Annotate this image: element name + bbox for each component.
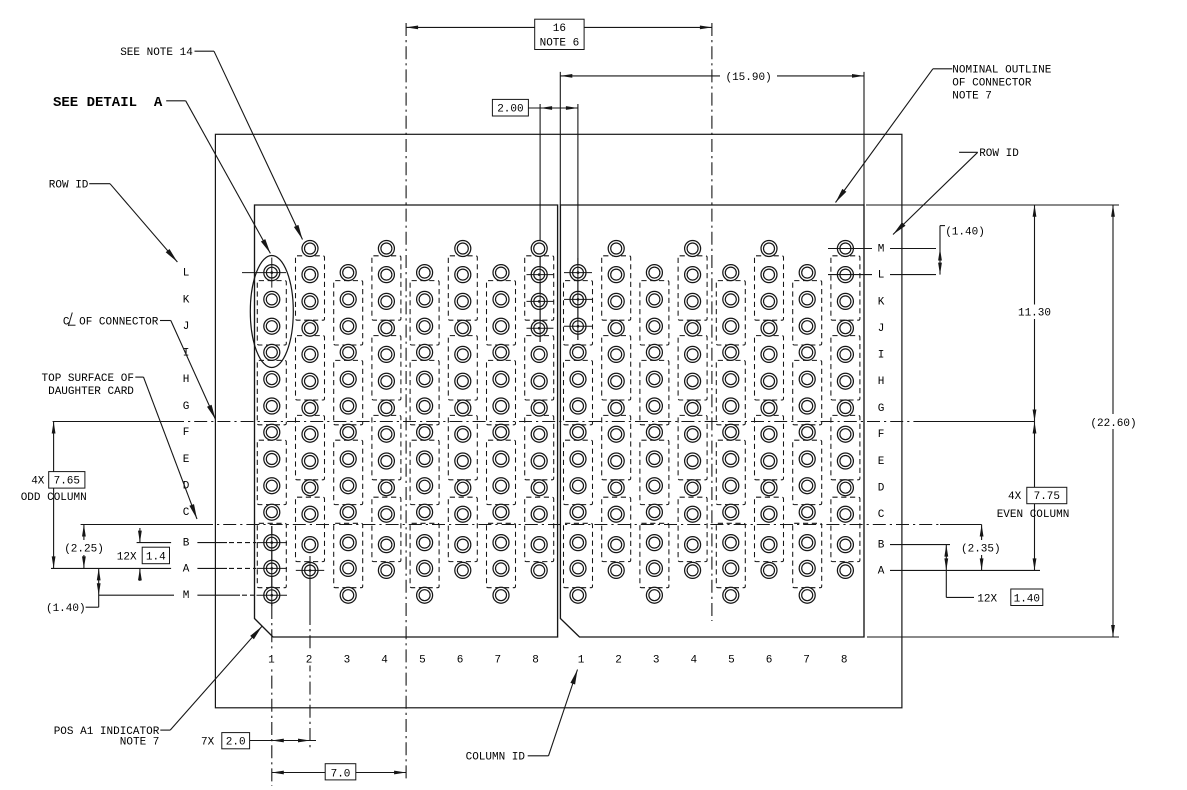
svg-text:ROW ID: ROW ID <box>49 180 89 192</box>
svg-text:OF CONNECTOR: OF CONNECTOR <box>952 78 1032 90</box>
svg-text:12X: 12X <box>117 551 137 563</box>
svg-text:(1.40): (1.40) <box>46 603 86 615</box>
svg-text:OF CONNECTOR: OF CONNECTOR <box>79 316 159 328</box>
svg-text:COLUMN ID: COLUMN ID <box>466 752 526 764</box>
svg-text:C: C <box>183 507 190 519</box>
svg-text:C: C <box>878 509 885 521</box>
svg-text:B: B <box>878 540 885 552</box>
svg-text:B: B <box>183 538 190 550</box>
svg-text:A: A <box>183 563 190 575</box>
svg-text:5: 5 <box>728 654 735 666</box>
svg-text:12X: 12X <box>977 593 997 605</box>
svg-text:4: 4 <box>381 654 388 666</box>
svg-text:6: 6 <box>457 654 464 666</box>
svg-text:G: G <box>183 401 190 413</box>
svg-text:SEE DETAIL A: SEE DETAIL A <box>53 95 163 111</box>
svg-text:ROW ID: ROW ID <box>979 148 1019 160</box>
svg-text:8: 8 <box>841 654 848 666</box>
svg-text:(1.40): (1.40) <box>945 227 985 239</box>
svg-text:H: H <box>878 376 885 388</box>
svg-text:1: 1 <box>268 654 275 666</box>
svg-text:M: M <box>183 590 190 602</box>
svg-text:K: K <box>878 296 885 308</box>
svg-text:16: 16 <box>553 23 566 35</box>
svg-text:F: F <box>878 429 885 441</box>
svg-text:K: K <box>183 294 190 306</box>
svg-text:(22.60): (22.60) <box>1090 418 1136 430</box>
svg-text:7: 7 <box>494 654 501 666</box>
svg-text:5: 5 <box>419 654 426 666</box>
svg-text:NOTE 7: NOTE 7 <box>952 91 992 103</box>
svg-text:11.30: 11.30 <box>1018 308 1051 320</box>
svg-text:3: 3 <box>344 654 351 666</box>
svg-text:2.0: 2.0 <box>226 736 246 748</box>
svg-text:L: L <box>878 270 885 282</box>
svg-text:G: G <box>878 403 885 415</box>
svg-text:2: 2 <box>306 654 313 666</box>
svg-text:DAUGHTER CARD: DAUGHTER CARD <box>48 386 134 398</box>
svg-text:A: A <box>878 565 885 577</box>
svg-text:6: 6 <box>766 654 773 666</box>
svg-text:I: I <box>878 349 885 361</box>
svg-text:J: J <box>183 321 190 333</box>
svg-text:NOTE 7: NOTE 7 <box>120 737 160 749</box>
svg-text:E: E <box>878 456 885 468</box>
svg-text:(15.90): (15.90) <box>725 72 771 84</box>
svg-text:(2.35): (2.35) <box>961 543 1001 555</box>
svg-text:EVEN COLUMN: EVEN COLUMN <box>997 509 1070 521</box>
svg-text:7.65: 7.65 <box>54 476 80 488</box>
svg-text:1.40: 1.40 <box>1014 593 1040 605</box>
svg-text:2: 2 <box>615 654 622 666</box>
svg-text:4X: 4X <box>31 476 45 488</box>
svg-text:7: 7 <box>803 654 810 666</box>
svg-text:H: H <box>183 374 190 386</box>
svg-text:(2.25): (2.25) <box>64 543 104 555</box>
svg-text:7.0: 7.0 <box>331 768 351 780</box>
svg-text:1: 1 <box>578 654 585 666</box>
svg-text:NOTE 6: NOTE 6 <box>540 38 580 50</box>
svg-text:3: 3 <box>653 654 660 666</box>
svg-text:SEE NOTE 14: SEE NOTE 14 <box>120 47 193 59</box>
svg-text:4X: 4X <box>1008 491 1022 503</box>
svg-text:4: 4 <box>690 654 697 666</box>
svg-text:NOMINAL OUTLINE: NOMINAL OUTLINE <box>952 65 1051 77</box>
svg-text:L: L <box>183 268 190 280</box>
svg-text:7X: 7X <box>201 736 215 748</box>
svg-text:TOP SURFACE OF: TOP SURFACE OF <box>42 373 134 385</box>
svg-text:J: J <box>878 323 885 335</box>
svg-text:E: E <box>183 454 190 466</box>
svg-text:F: F <box>183 427 190 439</box>
svg-text:2.00: 2.00 <box>497 104 523 116</box>
svg-text:ODD COLUMN: ODD COLUMN <box>21 492 87 504</box>
svg-text:7.75: 7.75 <box>1034 491 1060 503</box>
svg-text:M: M <box>878 243 885 255</box>
svg-text:D: D <box>878 483 885 495</box>
svg-text:8: 8 <box>532 654 539 666</box>
svg-text:1.4: 1.4 <box>146 551 166 563</box>
